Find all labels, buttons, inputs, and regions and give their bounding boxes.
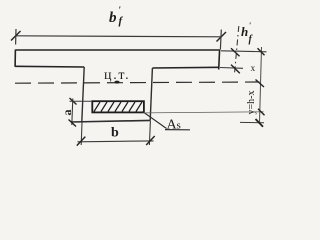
- extension line section bottom to right: [240, 121, 264, 123]
- extension line As top left: [70, 100, 93, 102]
- extension line flange top to right: [221, 51, 267, 52]
- svg-text:x: x: [251, 63, 256, 73]
- web right edge: [150, 68, 152, 121]
- svg-text:h: h: [241, 24, 248, 39]
- flange right edge: [218, 50, 221, 70]
- dimension line b: [78, 140, 154, 143]
- tick h'f top: [231, 48, 240, 56]
- svg-text:a: a: [60, 110, 74, 116]
- tick right top: [258, 48, 265, 55]
- svg-text:b: b: [111, 126, 119, 141]
- tick left end of b'f: [11, 31, 21, 41]
- tick h'f bottom: [231, 65, 240, 74]
- flange top edge: [15, 49, 219, 51]
- svg-text:b: b: [109, 10, 117, 26]
- dimension a line: [72, 99, 73, 126]
- extension line As bottom to right: [144, 112, 264, 113]
- dimension line b'f: [16, 36, 222, 37]
- tick b right: [146, 136, 155, 145]
- svg-text:′: ′: [249, 21, 251, 30]
- flange bottom edge right part: [152, 66, 219, 69]
- flange left edge: [14, 50, 16, 67]
- right dimension line x / y=h-x: [260, 47, 262, 123]
- centroid point dot: [114, 81, 119, 84]
- svg-text:s: s: [177, 120, 181, 132]
- reinforcement area As rectangle: [92, 101, 144, 112]
- tick right centroid: [256, 80, 265, 88]
- dimension line h'f (dash-dot vertical): [235, 26, 239, 73]
- tick right As level: [258, 109, 265, 116]
- hatching of As: [94, 102, 142, 112]
- svg-text:y=h-x: y=h-x: [246, 91, 257, 115]
- extension line left of b'f: [15, 29, 17, 45]
- label As underline: [165, 129, 190, 131]
- extension line right of b'f: [219, 30, 222, 50]
- tick b left: [77, 137, 86, 146]
- extension line b left: [80, 123, 83, 146]
- centroid dashed axis line: [15, 82, 260, 83]
- tick right bottom: [256, 119, 264, 127]
- web bottom edge: [71, 120, 150, 122]
- svg-text:ц.т.: ц.т.: [104, 68, 130, 83]
- leader line to As label: [143, 112, 167, 129]
- tick a top: [70, 98, 77, 105]
- tick a bottom: [69, 120, 77, 127]
- tick right end of b'f: [217, 32, 227, 42]
- flange bottom edge left part: [15, 65, 84, 68]
- web left edge: [82, 67, 84, 122]
- extension line b right: [149, 121, 150, 145]
- extension line flange bottom to right: [220, 67, 243, 70]
